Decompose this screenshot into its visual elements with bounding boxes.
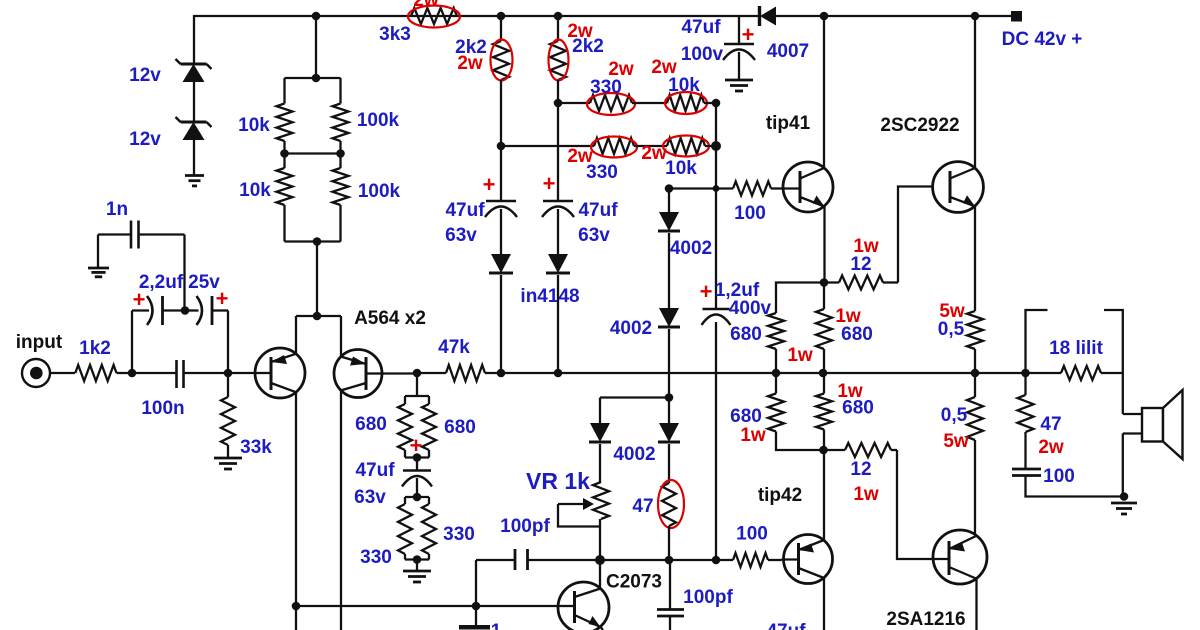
node rail-2k2b junction: [554, 12, 563, 21]
wire 4002#3 to VR: [599, 444, 601, 482]
ground below 330 pair: [403, 571, 431, 582]
label 100v: [681, 44, 724, 65]
wire row2 mid: [634, 145, 667, 147]
wire A564b collector down: [340, 390, 342, 630]
red circle 330 row2: [591, 137, 637, 158]
wire cap a to diode a: [500, 209, 502, 254]
svg-text:330: 330: [586, 162, 618, 183]
label + (47uf a): [483, 172, 496, 197]
wire to 47uf ladder cap: [416, 458, 418, 471]
wire bias split left: [600, 396, 669, 398]
wire 680a elbow: [776, 283, 824, 314]
wire rail to 2k2 a: [500, 16, 502, 41]
svg-text:input: input: [16, 332, 63, 353]
resistor R 330 (left): [398, 497, 412, 560]
label 680 (left lower): [730, 406, 762, 427]
svg-text:12v: 12v: [129, 65, 161, 86]
svg-text:680: 680: [355, 414, 387, 435]
node row2 right: [711, 141, 721, 151]
resistor R 680 (right): [422, 396, 436, 458]
resistor R 0,5 5w (upper): [967, 307, 983, 373]
transistor Q A564 b: [334, 350, 382, 398]
svg-text:100: 100: [734, 203, 766, 224]
label 100 (zobel): [1043, 466, 1075, 487]
red circle 330 row1: [587, 93, 635, 115]
svg-text:47uf: 47uf: [766, 621, 806, 630]
svg-text:2k2: 2k2: [572, 36, 604, 57]
wire bottom control rail: [528, 559, 734, 561]
svg-text:12v: 12v: [129, 129, 161, 150]
label 33k: [240, 437, 272, 458]
svg-text:330: 330: [360, 547, 392, 568]
node VR bottom: [595, 555, 605, 565]
red circle around 2k2 a: [491, 40, 513, 81]
capacitor C 100 (zobel): [1012, 469, 1041, 476]
wire cap b to diode b: [557, 209, 559, 254]
label 1,2uf: [715, 280, 760, 301]
ground below 33k: [214, 458, 242, 469]
wire rail to resistor network: [315, 16, 317, 78]
wire left branch down: [599, 398, 601, 424]
label 47uf b: [578, 200, 618, 221]
svg-text:1w: 1w: [787, 345, 813, 366]
label 1w (left upper): [787, 345, 813, 366]
resistor R 47 (bias): [662, 483, 676, 526]
node pair mid left: [280, 149, 289, 158]
node 330 pair top: [413, 493, 422, 502]
label 47 (zobel): [1040, 414, 1061, 435]
label 5w (upper): [939, 301, 965, 322]
red circle 10k row2: [663, 136, 709, 157]
red circle 10k row1: [665, 92, 707, 114]
label 2w (row1 10k): [651, 57, 677, 78]
label 680 (mid upper): [841, 324, 873, 345]
label 2SC2922: [880, 115, 959, 136]
wire tip42 emitter from junction: [823, 450, 825, 540]
label VR 1k: [526, 468, 590, 494]
svg-text:4002: 4002: [613, 444, 655, 465]
wire A564b base to node: [382, 372, 417, 374]
wire 100pf left down: [475, 560, 477, 606]
svg-text:100v: 100v: [681, 44, 724, 65]
partial label 47uf at bottom: [766, 621, 806, 630]
node rail-2k2a junction: [497, 12, 506, 21]
wire VR wiper loop: [558, 504, 600, 527]
label 25v: [188, 272, 220, 293]
label 1w (12 upper): [853, 236, 879, 257]
svg-text:4007: 4007: [767, 41, 809, 62]
svg-text:47k: 47k: [438, 337, 470, 358]
node row1 left: [554, 99, 563, 108]
node A564a-col to base: [292, 602, 301, 611]
label 2w fragment (cropped top): [413, 0, 439, 11]
label 100pf (right): [683, 587, 733, 608]
label 680 (mid lower): [842, 398, 874, 419]
partial cap plate at bottom: [459, 625, 490, 630]
wire 2k2 a down: [500, 80, 502, 201]
wire 330 pair bottom bar: [405, 558, 429, 560]
label 100 (tip42): [736, 524, 768, 545]
node row2 left: [497, 142, 506, 151]
svg-text:47uf: 47uf: [578, 200, 618, 221]
node tip41 emitter junction: [820, 278, 829, 287]
wire down to bottom cap: [475, 606, 477, 625]
node rail-resnet junction: [312, 12, 321, 21]
svg-text:47uf: 47uf: [445, 200, 485, 221]
wire diode a to bus: [500, 275, 502, 373]
wire speaker stub bottom: [1123, 432, 1142, 434]
svg-text:4002: 4002: [610, 318, 652, 339]
svg-text:+: +: [410, 433, 423, 458]
svg-text:3k3: 3k3: [379, 24, 411, 45]
label 330 (row2): [586, 162, 618, 183]
label 4002 #3: [613, 444, 655, 465]
label 2w b: [567, 21, 593, 42]
ground below 1n: [88, 268, 109, 277]
label 680 (ladder left): [355, 414, 387, 435]
node tip42 junction: [819, 446, 828, 455]
label 1n: [106, 199, 128, 220]
resistor R 3k3: [411, 8, 457, 24]
resistor R 0,5 5w (lower): [967, 373, 983, 536]
resistor R 330 (right): [422, 497, 436, 560]
resistor R 680 1w (left upper): [768, 313, 784, 373]
label 2SA1216: [886, 609, 965, 630]
ground below 47uf 100v: [725, 80, 753, 91]
wire driver base rail: [296, 605, 559, 607]
label 47uf (ladder): [355, 460, 395, 481]
label 63v b: [578, 225, 610, 246]
svg-text:10k: 10k: [238, 115, 270, 136]
label 330 (row1): [590, 77, 622, 98]
node 330 pair bottom: [413, 555, 422, 564]
node input coupling: [128, 369, 137, 378]
label 1k2: [79, 338, 111, 359]
svg-text:25v: 25v: [188, 272, 220, 293]
svg-text:100pf: 100pf: [683, 587, 733, 608]
label 12v (D2): [129, 129, 161, 150]
label 1w (mid upper): [835, 306, 861, 327]
wire A564a collector down: [295, 392, 297, 630]
label 400v: [729, 298, 772, 319]
node pair1 top: [312, 74, 321, 83]
node bus-2k2a: [497, 369, 506, 378]
svg-text:18 lilit: 18 lilit: [1049, 338, 1104, 359]
label 680 (ladder right): [444, 417, 476, 438]
label in4148: [520, 286, 579, 307]
svg-text:+: +: [742, 22, 755, 47]
svg-text:680: 680: [444, 417, 476, 438]
diode D 4002 #1: [658, 189, 680, 232]
svg-text:VR 1k: VR 1k: [526, 468, 590, 494]
wire 4002#4 to R47: [668, 444, 670, 483]
label 2w a: [457, 53, 483, 74]
wire A564b emitter up: [340, 316, 342, 357]
speaker horn: [1163, 390, 1183, 459]
transistor Q tip42: [782, 535, 833, 584]
wire A564b node to 47k: [417, 372, 446, 374]
label + (47uf 100v): [742, 22, 755, 47]
resistor R 680 1w (mid lower): [816, 373, 832, 450]
resistor R 330 (row2): [594, 138, 634, 154]
node A564 split: [313, 312, 322, 321]
label tip41: [766, 113, 811, 134]
node 100pf-base wire: [472, 602, 481, 611]
svg-text:100: 100: [736, 524, 768, 545]
svg-text:330: 330: [443, 524, 475, 545]
wire tip41 junction to 680: [823, 283, 825, 310]
svg-text:47: 47: [1040, 414, 1061, 435]
node 680 pair bottom: [413, 453, 422, 462]
wire emitter split bar: [296, 315, 341, 317]
svg-text:0,5: 0,5: [938, 319, 965, 340]
svg-text:100k: 100k: [358, 181, 401, 202]
capacitor C 47uf 100v: [723, 44, 755, 60]
svg-text:330: 330: [590, 77, 622, 98]
svg-text:0,5: 0,5: [941, 405, 968, 426]
node rail-2SC2922 junction: [971, 12, 980, 21]
label 680 (left upper): [730, 324, 762, 345]
wire row2 left: [501, 145, 594, 147]
node pair mid right: [336, 149, 345, 158]
red circle 47: [658, 480, 684, 528]
input jack: [22, 359, 50, 387]
label 10k (row2): [665, 158, 697, 179]
svg-text:100k: 100k: [357, 110, 400, 131]
label 5w (lower): [943, 431, 969, 452]
resistor R 10k (pair1): [277, 78, 293, 154]
label 10k (pair2): [239, 180, 271, 201]
wire 12 down to 2SA1216 base: [897, 450, 932, 559]
wire 2SC2922 emitter down: [974, 206, 976, 307]
svg-text:+: +: [483, 172, 496, 197]
svg-text:33k: 33k: [240, 437, 272, 458]
label 12 (lower): [850, 459, 871, 480]
wire jack to R 1k2: [50, 372, 75, 374]
wire 330 pair to ground: [416, 560, 418, 572]
label 2w (row2 330): [567, 146, 593, 167]
resistor R 330 (row1): [590, 95, 632, 111]
label + (1,2uf): [700, 279, 713, 304]
wire 2k2 b down: [557, 80, 559, 201]
wire speaker top feed: [1122, 373, 1124, 414]
svg-text:2,2uf: 2,2uf: [139, 272, 184, 293]
resistor R 680 (left): [398, 396, 412, 458]
wire output bus: [485, 372, 1061, 374]
diode D 4002 #3: [589, 423, 611, 442]
resistor R 2k2 b: [550, 41, 566, 80]
ground below zeners: [185, 176, 204, 186]
svg-text:1k2: 1k2: [79, 338, 111, 359]
resistor R 12 (upper): [824, 276, 898, 290]
wire rail to zener D1: [193, 15, 195, 63]
capacitor C 2,2uf a: [132, 296, 185, 325]
wire cap 2,2uf b down to node: [227, 311, 229, 374]
label 47 (bias): [632, 496, 653, 517]
label 47uf a: [445, 200, 485, 221]
node bus-zobel: [1021, 369, 1030, 378]
wire node up to cap 2,2uf: [131, 311, 133, 374]
wire 100 to tip41 base: [771, 187, 783, 189]
wire resnet to A564 split: [316, 242, 318, 317]
label + (C2,2uf a): [133, 287, 146, 312]
wire zener D1 to D2: [193, 82, 195, 121]
ground below speaker: [1111, 503, 1137, 514]
label 100pf (left): [500, 516, 550, 537]
wire 1n to ground: [97, 235, 99, 268]
wire R47 to bottom rail: [668, 526, 670, 560]
svg-text:680: 680: [842, 398, 874, 419]
label 1w (12 lower): [853, 484, 879, 505]
wire 1n to 2,2uf node: [183, 235, 185, 311]
diode D 4002 #4: [658, 398, 680, 443]
resistor R 100 (tip41 base): [733, 182, 771, 196]
label 63v (ladder): [354, 487, 386, 508]
wire speaker return: [1122, 434, 1124, 497]
label 330 (ladder right): [443, 524, 475, 545]
label 2w (row2 10k): [641, 143, 667, 164]
label + (47uf b): [543, 171, 556, 196]
resistor R 1k2: [75, 365, 116, 381]
node pair2 bottom: [313, 237, 322, 246]
zener D2 12v: [176, 117, 212, 140]
label 47 fragment: [0, 0, 1, 1]
label 4002 #1: [670, 238, 712, 259]
capacitor C 100n: [132, 360, 228, 388]
label 2w (row1 330): [608, 59, 634, 80]
label 100k (pair2): [358, 181, 401, 202]
capacitor C 47uf 63v a: [485, 201, 517, 217]
node bus-05: [971, 369, 980, 378]
svg-text:2w: 2w: [641, 143, 667, 164]
svg-text:C2073: C2073: [606, 572, 662, 593]
node bus-2k2b: [554, 369, 563, 378]
inductor bracket left: [1026, 310, 1048, 373]
wire rail to tip41 collector: [823, 16, 825, 168]
diode D 4002 #2: [658, 308, 680, 327]
svg-text:1w: 1w: [740, 425, 766, 446]
label 47uf 100v: [681, 17, 721, 38]
diode D 4007: [760, 6, 777, 26]
wire bias top to 100: [669, 187, 733, 189]
svg-text:in4148: in4148: [520, 286, 579, 307]
wire 680 pair top bar: [405, 395, 429, 397]
svg-text:2w: 2w: [457, 53, 483, 74]
wire 680 pair bottom bar: [405, 456, 429, 458]
svg-text:10k: 10k: [239, 180, 271, 201]
svg-text:5w: 5w: [943, 431, 969, 452]
svg-text:47uf: 47uf: [355, 460, 395, 481]
label tip42: [758, 485, 802, 506]
label + (C2,2uf b): [216, 286, 229, 311]
node A564b base: [413, 369, 422, 378]
svg-text:10k: 10k: [665, 158, 697, 179]
capacitor C 47uf (ladder): [402, 471, 432, 487]
svg-text:680: 680: [730, 324, 762, 345]
svg-text:+: +: [543, 171, 556, 196]
wire 47uf to 330 pair: [416, 478, 418, 497]
wire 10k column: [715, 103, 717, 309]
resistor R 2k2 a: [493, 41, 509, 80]
resistor R 47 2w (zobel): [1018, 373, 1034, 469]
label 1w (mid lower): [837, 381, 863, 402]
capacitor C 100pf (right): [657, 560, 684, 630]
label 4007: [767, 41, 809, 62]
wire rail to 2SC2922 collector: [974, 16, 976, 169]
red circle around 2k2 b: [549, 40, 569, 81]
svg-text:47uf: 47uf: [681, 17, 721, 38]
wire tip42 collector down: [823, 578, 825, 630]
wire node to A564a base: [228, 372, 256, 374]
wire speaker stub top: [1123, 413, 1142, 415]
label 1w (left lower): [740, 425, 766, 446]
node 100n right: [224, 369, 233, 378]
wire pair1 top bar: [285, 77, 341, 79]
label 63v a: [445, 225, 477, 246]
node speaker ground: [1120, 492, 1129, 501]
label 12v (D1): [129, 65, 161, 86]
resistor R 18 lilit: [1061, 366, 1123, 380]
svg-text:2w: 2w: [413, 0, 439, 11]
resistor R 33k: [221, 373, 235, 458]
label 12 (upper): [850, 254, 871, 275]
svg-text:+: +: [700, 279, 713, 304]
wire 330 pair top bar: [405, 496, 429, 498]
label 330 (ladder left): [360, 547, 392, 568]
label 0,5 (upper): [938, 319, 965, 340]
node 10kcol bottom: [712, 556, 721, 565]
wire 12 up to 2SC2922 base: [898, 187, 933, 283]
resistor R 680 1w (left lower): [768, 373, 823, 450]
wire C2073 emitter down: [601, 627, 604, 630]
svg-text:63v: 63v: [354, 487, 386, 508]
label C2073: [606, 572, 662, 593]
label 100k (pair1): [357, 110, 400, 131]
label 0,5 (lower): [941, 405, 968, 426]
svg-text:12: 12: [850, 254, 871, 275]
capacitor C 1,2uf: [702, 309, 731, 325]
svg-text:10k: 10k: [668, 75, 700, 96]
svg-text:100n: 100n: [141, 398, 184, 419]
transistor Q C2073: [558, 582, 609, 630]
svg-text:100: 100: [1043, 466, 1075, 487]
wire pair2 bottom bar: [285, 240, 341, 242]
label A564 x2: [354, 308, 426, 329]
wire zener D2 to ground: [193, 140, 195, 175]
label 2k2 a: [455, 37, 487, 58]
transistor Q 2SA1216: [932, 530, 987, 584]
svg-text:47: 47: [632, 496, 653, 517]
potentiometer VR 1k: [593, 482, 609, 560]
transistor Q tip41: [783, 162, 833, 212]
resistor R 10k (pair2): [277, 154, 293, 242]
svg-text:680: 680: [841, 324, 873, 345]
wire 10k column lower: [715, 322, 717, 560]
node R47 bottom: [665, 556, 674, 565]
node row1 right: [712, 99, 721, 108]
zener D1 12v: [176, 59, 212, 82]
svg-text:A564 x2: A564 x2: [354, 308, 426, 329]
label + (C47uf ladder): [410, 433, 423, 458]
resistor R 100k (pair2): [333, 154, 349, 242]
resistor R 100k (pair1): [333, 78, 349, 154]
node bus-680a: [772, 369, 781, 378]
wire tip41 emitter down: [823, 207, 825, 283]
wire zobel to ground rail: [1026, 476, 1125, 497]
inductor bracket right: [1104, 310, 1123, 373]
partial label 1 at bottom: [491, 621, 502, 630]
wire top supply rail: [194, 15, 1012, 17]
